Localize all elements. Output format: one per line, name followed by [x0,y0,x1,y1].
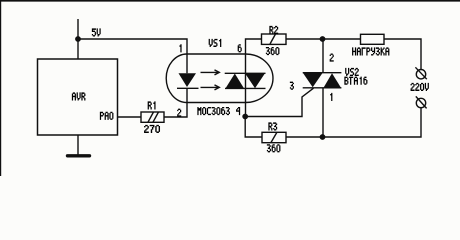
opto-triac left triangle [226,74,245,89]
triac VS2 vertical MT2 lead [322,39,324,73]
node A junction dot (top of VS2) [320,36,326,42]
resistor R3 slash mark [271,133,277,143]
wire 5V rail to opto pin 1 [78,39,187,73]
value 360 of R3 [267,144,281,152]
value 270 [144,125,160,133]
opto light arrow 2 [201,85,220,90]
label R2 [269,26,278,34]
label NAGRUZKA load [352,47,389,55]
wire 220V return to bottom rail [323,108,422,137]
opto-triac bottom bar [225,87,266,89]
frame border left [0,0,2,176]
resistor R3 body [262,132,286,142]
label 5V [92,28,101,36]
wire PA0 to resistor R1 [118,116,142,118]
pin label 4 of VS1 [236,107,240,115]
label MOC3063 [197,107,230,115]
wire R2 to node A [286,38,323,40]
label VS1 [209,39,222,47]
220V plug contact bottom circle [416,98,425,107]
load box NAGRUZKA [361,34,385,44]
label VS2 [345,68,359,76]
label PA0 [100,112,114,120]
ground [68,154,90,157]
opto-triac top bar [225,72,266,74]
ground wire stub [77,135,79,155]
resistor R2 body [262,34,287,44]
node opto pin 4 junction dot [242,114,248,120]
wire 5V stub above junction [77,19,79,59]
label R3 [268,122,277,130]
pin label 6 of VS1 [238,44,242,52]
label BTA16 [344,77,367,85]
triac VS2 top bar [303,72,342,74]
opto-triac right triangle [245,73,265,88]
triac VS2 bottom bar [303,87,342,89]
AVR box U1 [38,59,118,135]
triac VS2 left triangle [303,73,323,87]
node B junction dot (bottom of VS2) [320,134,326,140]
wire opto pin 6 vertical through capsule [246,39,262,117]
wire opto pin 4 to VS2 gate [245,88,313,116]
pin label 2 of VS2 [330,54,334,62]
220V plug contact top circle [416,70,425,79]
triac VS2 right triangle [324,73,342,88]
LED cathode bar [177,87,199,89]
frame border top [0,0,460,2]
label AVR [72,92,86,100]
resistor R1 body [141,112,164,122]
opto light arrow 1 [201,70,220,75]
resistor R2 slash mark [270,34,276,44]
node 5V junction dot [75,36,81,42]
pin label 2 of VS1 [177,109,181,117]
optocoupler VS1 body (capsule outline) [166,54,273,103]
wire R1 to opto pin 2 [164,88,187,117]
label 220V [411,83,429,91]
wire node B to R3 [286,136,323,138]
pin label 1 of VS1 [179,44,181,52]
value 360 of R2 [266,47,280,55]
wire load to 220V drop [384,39,421,69]
label R1 [148,101,156,109]
wire R3 to opto pin 4 [245,117,262,138]
pin label 1 of VS2 [330,93,332,101]
LED of VS1: anode bar and triangle [179,73,197,87]
triac VS2 vertical MT1 lead [322,88,324,137]
pin label 3 of VS2 gate [290,82,294,90]
wire node A to load [323,38,361,40]
resistor R1 slash marks [148,112,154,122]
